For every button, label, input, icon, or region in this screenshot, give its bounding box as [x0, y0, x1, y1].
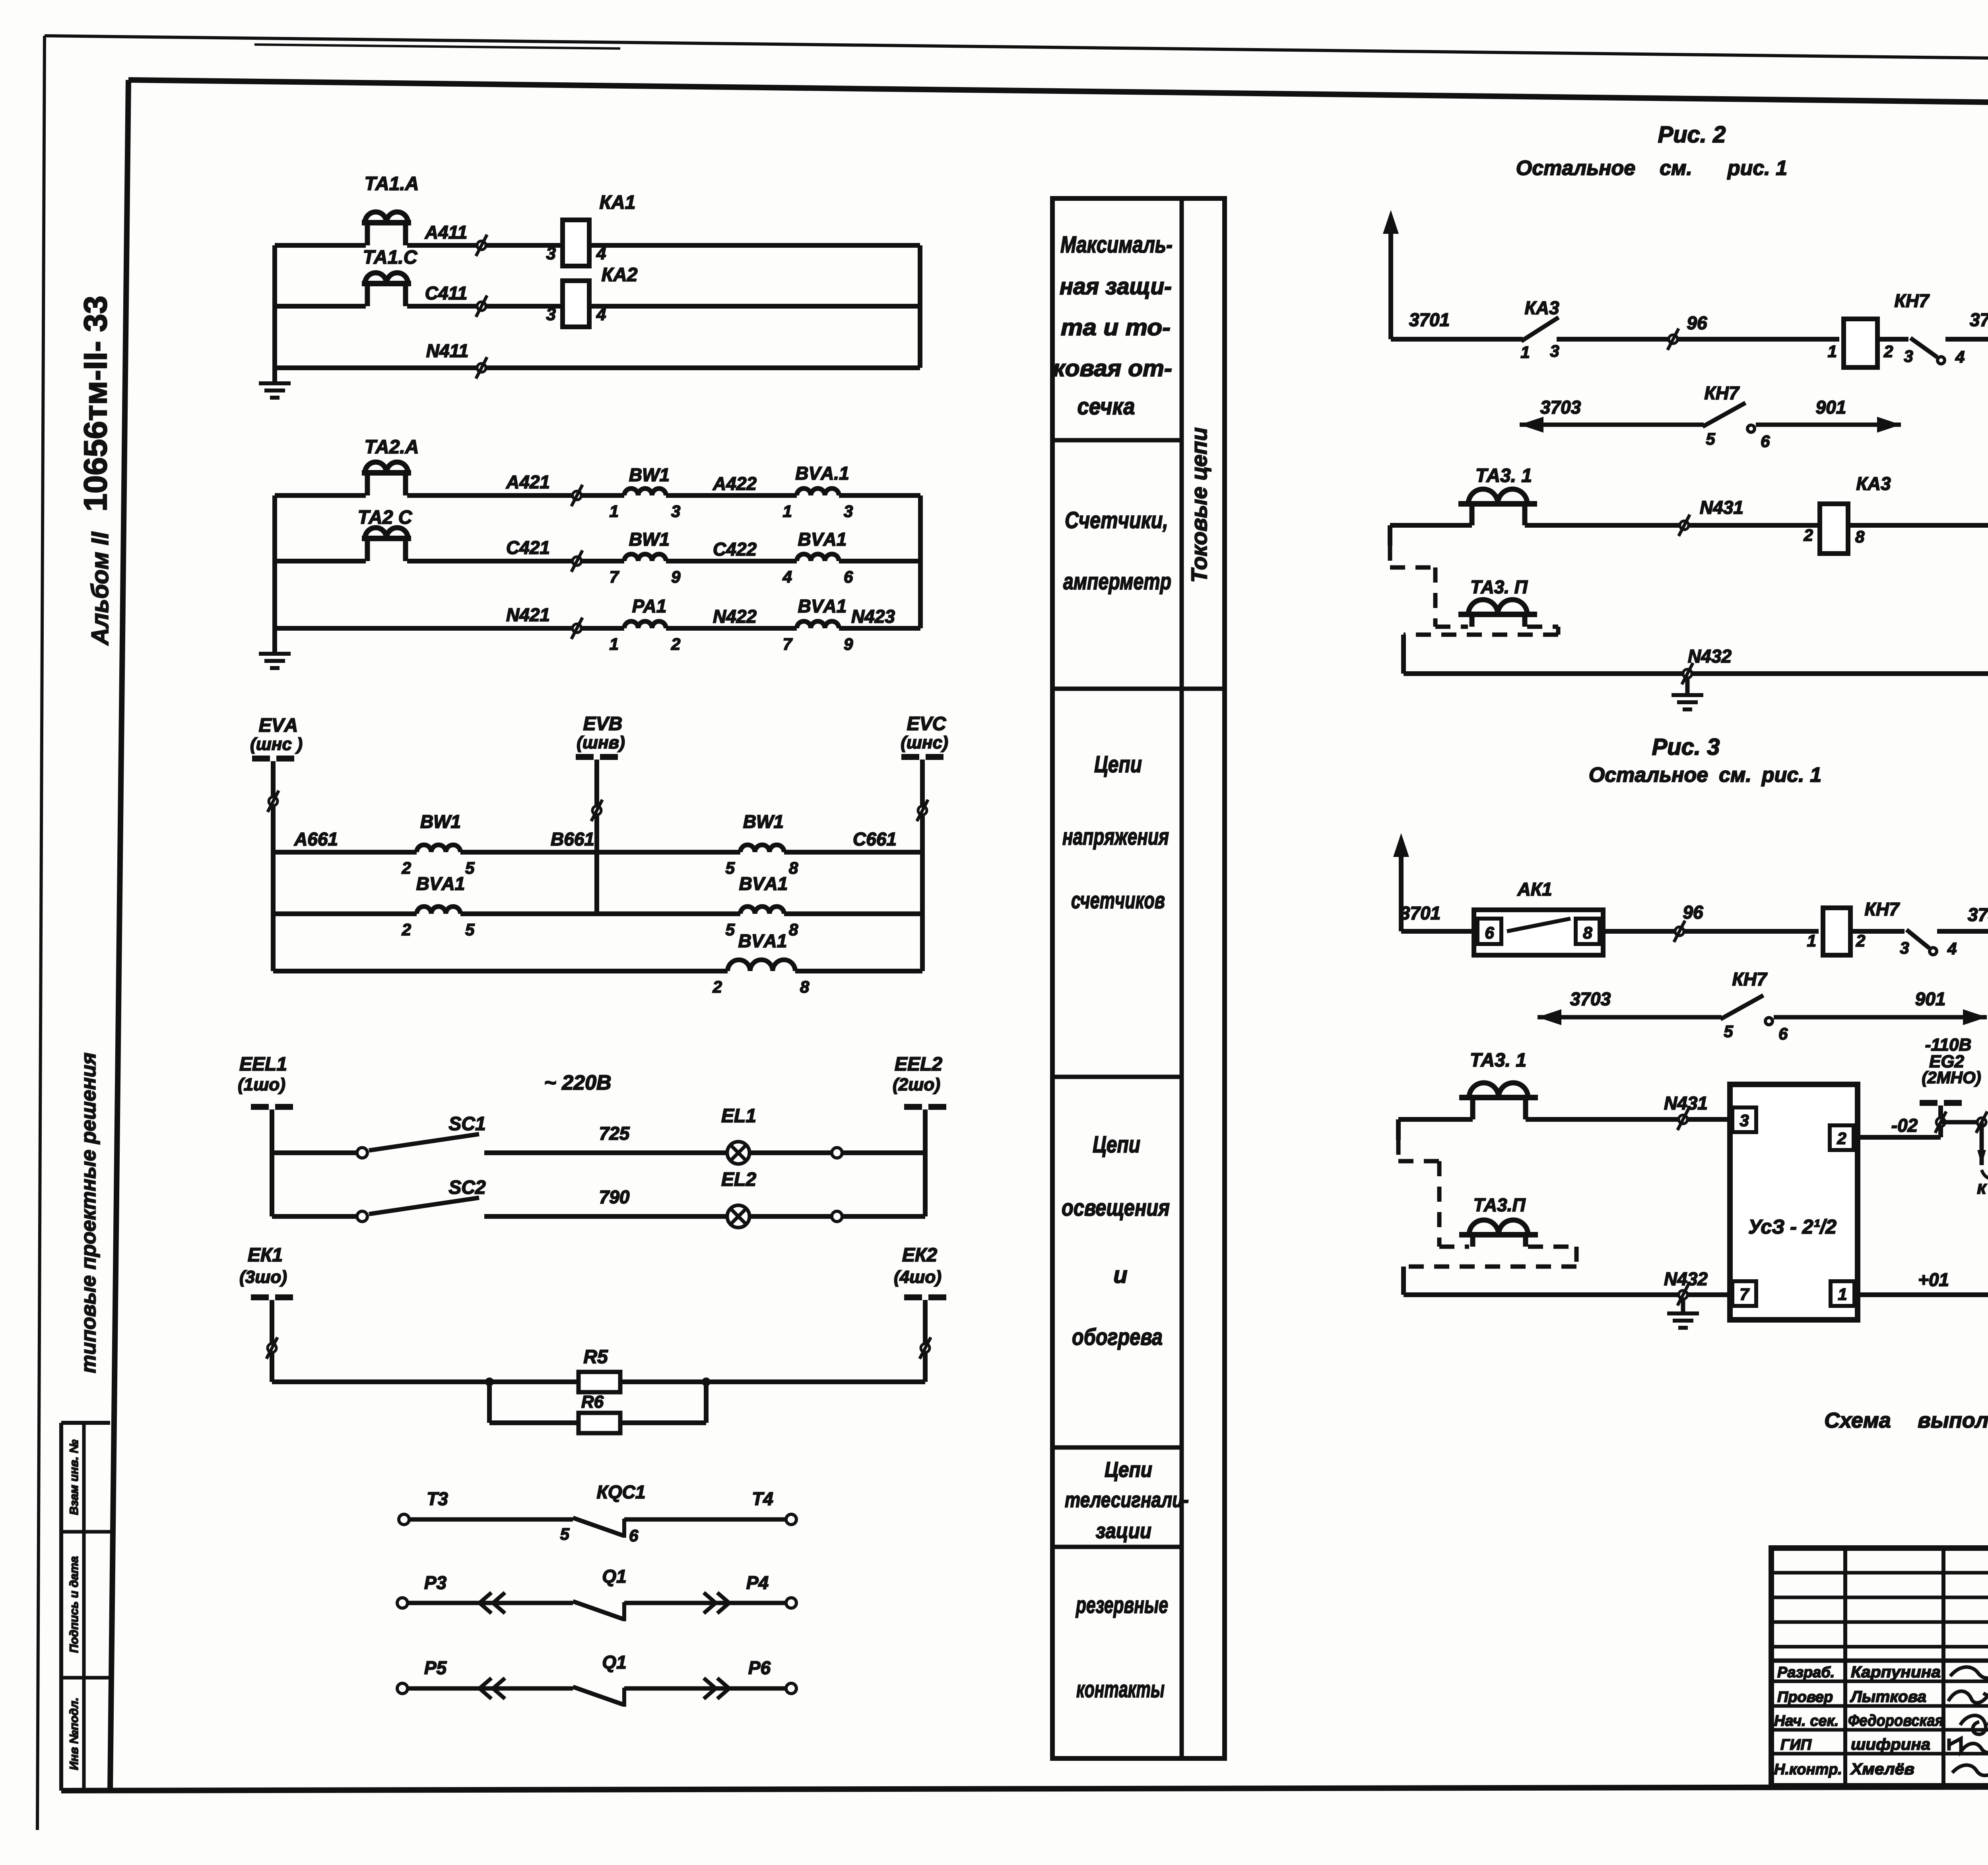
svg-text:ЕL2: ЕL2	[721, 1169, 756, 1190]
svg-text:Н.контр.: Н.контр.	[1774, 1761, 1842, 1778]
node left bus TA1	[272, 245, 277, 368]
svg-text:1: 1	[1838, 1285, 1847, 1304]
svg-text:Токовые цепи: Токовые цепи	[1186, 427, 1211, 583]
svg-text:Максималь-: Максималь-	[1060, 232, 1173, 258]
svg-text:N422: N422	[713, 606, 757, 627]
svg-text:КН7: КН7	[1894, 290, 1930, 311]
wire 3735 fig2	[1945, 337, 1988, 342]
node slash N432 fig3	[1679, 1290, 1687, 1299]
svg-text:ЕVА: ЕVА	[259, 715, 298, 736]
svg-text:5: 5	[1706, 429, 1715, 448]
sheet outer border left	[37, 36, 45, 1830]
svg-text:Подпись и дата: Подпись и дата	[68, 1556, 81, 1653]
svg-text:2: 2	[402, 920, 411, 939]
svg-text:ЕК1: ЕК1	[248, 1245, 283, 1266]
svg-text:Альбом II: Альбом II	[87, 531, 113, 646]
svg-text:3703: 3703	[1540, 397, 1581, 418]
svg-text:N421: N421	[506, 604, 550, 625]
svg-text:6: 6	[1485, 923, 1494, 942]
svg-text:5: 5	[560, 1525, 570, 1543]
node slash EK2	[921, 1344, 930, 1352]
node 96 fig2	[1669, 335, 1677, 344]
svg-text:Федоровская: Федоровская	[1848, 1712, 1943, 1729]
svg-text:1: 1	[1807, 931, 1816, 950]
svg-text:ТА2.А: ТА2.А	[365, 437, 419, 458]
node slash A421	[573, 491, 581, 500]
wire C411	[275, 304, 366, 309]
svg-text:SС2: SС2	[448, 1177, 486, 1198]
svg-text:5: 5	[726, 859, 735, 877]
svg-text:2: 2	[712, 977, 722, 996]
svg-text:3: 3	[546, 244, 556, 263]
wire right bus TA2	[918, 495, 923, 628]
svg-text:SС1: SС1	[448, 1113, 485, 1135]
svg-text:3: 3	[1904, 347, 1913, 365]
svg-text:7: 7	[610, 567, 619, 586]
title block signature rows	[1771, 1680, 1988, 1683]
node slash EG2	[1936, 1118, 1945, 1127]
svg-text:телесигнали-: телесигнали-	[1065, 1488, 1189, 1512]
wire heater row	[272, 1379, 579, 1384]
svg-text:1: 1	[610, 635, 619, 653]
svg-text:контакты: контакты	[1076, 1677, 1165, 1702]
svg-text:ВW1: ВW1	[629, 529, 670, 550]
wire A421	[275, 493, 366, 498]
svg-text:N432: N432	[1688, 646, 1732, 666]
svg-text:5: 5	[726, 920, 735, 939]
svg-text:901: 901	[1915, 989, 1946, 1009]
svg-text:Р4: Р4	[746, 1572, 769, 1593]
node 96 fig3	[1675, 927, 1684, 936]
contact circle T4	[786, 1514, 796, 1525]
wire EVC vertical	[920, 760, 925, 971]
svg-text:резервные: резервные	[1076, 1592, 1168, 1618]
svg-text:А422: А422	[712, 473, 757, 494]
svg-text:(шнв): (шнв)	[577, 733, 625, 752]
contact circle SC2 left	[357, 1211, 367, 1222]
svg-text:3735: 3735	[1968, 904, 1988, 925]
svg-text:R5: R5	[583, 1346, 608, 1368]
node slash C421	[573, 557, 581, 565]
wire EEL2 vertical	[923, 1109, 928, 1216]
svg-text:КА3: КА3	[1856, 473, 1891, 494]
wire fig2 left riser with arrow	[1388, 222, 1393, 339]
svg-text:8: 8	[789, 859, 798, 877]
wire +01	[1854, 1292, 1988, 1297]
wire stub -2	[1941, 1120, 1982, 1125]
svg-text:9: 9	[844, 635, 853, 653]
wire BVA1 voltage row	[273, 911, 417, 916]
svg-text:КН7: КН7	[1704, 383, 1739, 403]
svg-text:освещения: освещения	[1062, 1195, 1170, 1221]
svg-text:+01: +01	[1918, 1269, 1949, 1290]
svg-text:КН7: КН7	[1732, 969, 1767, 989]
svg-text:2: 2	[402, 859, 411, 877]
wire EVA vertical	[271, 761, 276, 971]
wire left bus lower fig3	[1401, 1267, 1406, 1295]
drawing frame top	[128, 80, 1988, 109]
node slash N421	[573, 624, 581, 633]
wire N421	[275, 626, 624, 631]
wire 3701 fig3	[1401, 929, 1474, 934]
svg-text:В661: В661	[551, 829, 594, 849]
svg-text:ЕVС: ЕVС	[907, 713, 947, 734]
svg-text:5: 5	[465, 859, 475, 877]
wire 3703 arrow row fig2	[1520, 417, 1543, 433]
svg-text:КQС1: КQС1	[597, 1482, 646, 1502]
svg-text:ЕL1: ЕL1	[721, 1105, 756, 1127]
svg-text:сечка: сечка	[1077, 394, 1135, 420]
svg-text:(шнс): (шнс)	[901, 733, 948, 752]
svg-text:3701: 3701	[1409, 309, 1450, 330]
svg-text:-02: -02	[1891, 1115, 1918, 1136]
dashed link TA3.P fig2	[1388, 546, 1392, 567]
svg-text:КА2: КА2	[602, 264, 638, 286]
svg-text:Т3: Т3	[427, 1488, 448, 1509]
svg-text:Нач. сек.: Нач. сек.	[1774, 1713, 1839, 1729]
svg-text:РА1: РА1	[632, 596, 667, 616]
wire C421	[275, 559, 366, 563]
svg-text:~ 220В: ~ 220В	[544, 1071, 611, 1094]
wire T3	[410, 1517, 573, 1522]
svg-text:N431: N431	[1664, 1093, 1708, 1113]
contact circle T3	[399, 1514, 409, 1525]
svg-text:8: 8	[1855, 527, 1865, 546]
plug chevrons right Q1 row2	[704, 1678, 716, 1699]
margin stamp table	[59, 1423, 63, 1791]
svg-text:ВVА1: ВVА1	[739, 873, 788, 894]
svg-text:3: 3	[1739, 1111, 1749, 1130]
svg-text:8: 8	[789, 920, 798, 939]
svg-text:(шнс ): (шнс )	[250, 734, 303, 754]
svg-text:ЕVВ: ЕVВ	[583, 713, 623, 734]
svg-text:А421: А421	[506, 472, 550, 492]
svg-text:725: 725	[599, 1123, 630, 1144]
svg-text:ТА1.С: ТА1.С	[363, 247, 418, 268]
svg-text:4: 4	[782, 567, 792, 586]
svg-text:КА3: КА3	[1524, 297, 1559, 318]
node slash EVC	[918, 806, 927, 815]
plug chevrons left Q1 row2	[493, 1678, 505, 1699]
wire 901 arrow row fig3	[1774, 1015, 1987, 1020]
wire 901 arrow row fig2	[1756, 423, 1901, 427]
wire N432 fig3	[1404, 1292, 1732, 1297]
wire left bus upper fig3	[1396, 1119, 1401, 1140]
svg-text:1: 1	[1828, 342, 1837, 361]
svg-text:Цепи: Цепи	[1093, 1132, 1140, 1158]
svg-text:(2шо): (2шо)	[893, 1075, 940, 1094]
svg-text:8: 8	[800, 977, 810, 996]
svg-text:С411: С411	[425, 283, 468, 303]
svg-text:Цепи: Цепи	[1094, 752, 1142, 777]
svg-text:УсЗ - 2¹/2: УсЗ - 2¹/2	[1748, 1216, 1837, 1238]
svg-text:ЕЕL2: ЕЕL2	[895, 1054, 942, 1075]
sheet outer border top	[45, 36, 1988, 65]
wire right bus TA1	[918, 245, 922, 368]
svg-text:3701: 3701	[1400, 903, 1441, 923]
svg-text:(4шо): (4шо)	[894, 1267, 942, 1287]
wire N431 fig2	[1390, 523, 1472, 528]
svg-text:Карпунина: Карпунина	[1851, 1663, 1941, 1681]
svg-text:КН7: КН7	[1864, 899, 1900, 919]
wire left bus upper fig2	[1388, 525, 1392, 546]
svg-text:4: 4	[1955, 348, 1965, 366]
svg-text:790: 790	[599, 1187, 630, 1207]
svg-text:ВVА1: ВVА1	[416, 873, 465, 894]
svg-text:4: 4	[1947, 939, 1957, 958]
protection unit AK1 USZ-2/2	[1730, 1084, 1858, 1320]
svg-text:Рис. 3: Рис. 3	[1652, 734, 1720, 760]
svg-text:3: 3	[1550, 342, 1559, 360]
wire lighting row 1	[272, 1150, 357, 1155]
contact 3-4 KH7 fig2	[1877, 337, 1908, 342]
svg-text:1: 1	[610, 502, 619, 521]
drawing frame bottom	[61, 1786, 1988, 1791]
ground TA2 bus	[272, 630, 277, 653]
svg-text:ТА3. П: ТА3. П	[1470, 577, 1528, 597]
wire left bus lower fig2	[1401, 635, 1406, 674]
svg-text:ВVА1: ВVА1	[798, 596, 847, 616]
node slash EVA	[269, 797, 278, 806]
svg-text:96: 96	[1687, 313, 1707, 333]
svg-text:6: 6	[1761, 432, 1770, 451]
wire 3701 fig2	[1391, 337, 1523, 342]
dashed link TA3.P fig3	[1396, 1140, 1401, 1161]
svg-text:шифрина: шифрина	[1851, 1736, 1930, 1753]
svg-text:Р6: Р6	[748, 1657, 771, 1678]
svg-text:рис. 1: рис. 1	[1761, 763, 1821, 787]
svg-text:и: и	[1113, 1262, 1127, 1288]
svg-text:Взам инв. №: Взам инв. №	[68, 1440, 81, 1515]
svg-text:ЕК2: ЕК2	[902, 1245, 938, 1266]
svg-text:8: 8	[1583, 923, 1592, 942]
node slash N431 fig2	[1680, 521, 1689, 530]
svg-text:ТА3.П: ТА3.П	[1473, 1195, 1526, 1215]
wire P4	[624, 1601, 786, 1605]
svg-text:Лыткова: Лыткова	[1850, 1688, 1926, 1706]
svg-text:N411: N411	[426, 340, 469, 361]
wire to node 96 fig2	[1557, 337, 1839, 342]
svg-text:(2МНО): (2МНО)	[1922, 1068, 1981, 1087]
node left bus TA2	[272, 495, 277, 630]
wire EVB vertical	[594, 760, 599, 914]
junction dots R5	[485, 1377, 494, 1386]
contact circle SC1 left	[357, 1148, 367, 1158]
wire N431 fig3	[1398, 1117, 1473, 1122]
wire fig3 left riser with arrow	[1399, 845, 1404, 931]
svg-text:С421: С421	[506, 537, 550, 558]
svg-text:АК1: АК1	[1517, 879, 1552, 899]
svg-text:Q1: Q1	[602, 1566, 626, 1587]
svg-text:рис. 1: рис. 1	[1727, 157, 1787, 180]
svg-text:напряжения: напряжения	[1062, 824, 1169, 850]
svg-text:6: 6	[1778, 1024, 1788, 1043]
contact circle P3	[397, 1598, 408, 1608]
svg-text:Цепи: Цепи	[1105, 1458, 1152, 1482]
ground N432 fig2	[1685, 678, 1690, 694]
svg-text:см.: см.	[1719, 763, 1751, 787]
wire 3703 arrow row fig3	[1538, 1009, 1561, 1025]
wire T4	[624, 1517, 786, 1522]
svg-text:А411: А411	[425, 222, 468, 243]
svg-text:Остальное: Остальное	[1516, 157, 1635, 180]
svg-text:2: 2	[1856, 931, 1865, 950]
svg-text:1: 1	[1520, 343, 1530, 361]
wire N411	[275, 365, 920, 370]
svg-text:(1шо): (1шо)	[238, 1075, 285, 1094]
svg-text:2: 2	[1804, 526, 1813, 544]
svg-text:4: 4	[596, 244, 606, 263]
svg-text:ковая от-: ковая от-	[1053, 356, 1172, 381]
svg-text:Р5: Р5	[424, 1657, 447, 1678]
middle table frame	[1052, 198, 1225, 1758]
svg-text:Схема: Схема	[1824, 1408, 1891, 1432]
svg-text:96: 96	[1683, 902, 1703, 923]
wire EG2 vertical	[1938, 1105, 1943, 1137]
svg-text:ВVА1: ВVА1	[798, 529, 847, 550]
svg-text:типовые проектные решения: типовые проектные решения	[77, 1053, 100, 1373]
svg-text:С422: С422	[713, 539, 757, 559]
node slash N411	[477, 363, 486, 372]
wire BVA1 lower row	[273, 969, 728, 973]
svg-text:ТА1.А: ТА1.А	[365, 173, 419, 194]
svg-text:901: 901	[1816, 397, 1846, 418]
svg-text:ГИП: ГИП	[1780, 1737, 1812, 1753]
svg-text:Q1: Q1	[602, 1652, 626, 1673]
svg-text:ВVА1: ВVА1	[738, 931, 787, 951]
svg-text:обогрева: обогрева	[1072, 1324, 1163, 1350]
svg-text:N431: N431	[1700, 497, 1743, 518]
svg-text:Р3: Р3	[424, 1572, 447, 1593]
node slash EK1	[268, 1344, 276, 1352]
contact circle P4	[786, 1598, 796, 1608]
svg-text:2: 2	[1883, 342, 1893, 361]
svg-text:ТА2 С: ТА2 С	[358, 507, 413, 528]
title block signatures	[1950, 1667, 1988, 1678]
svg-text:Счетчики,: Счетчики,	[1065, 507, 1168, 533]
svg-text:2: 2	[671, 635, 680, 653]
contact 3-4 KH7 fig3	[1850, 929, 1905, 934]
svg-text:3: 3	[1900, 938, 1909, 957]
svg-text:ВW1: ВW1	[629, 464, 670, 485]
svg-text:9: 9	[671, 567, 681, 586]
ground TA1 bus	[272, 368, 277, 383]
svg-text:Хмелёв: Хмелёв	[1850, 1760, 1914, 1778]
sheet outer border top doubled segment	[254, 45, 620, 49]
svg-text:7: 7	[1739, 1285, 1749, 1304]
svg-text:5: 5	[1724, 1022, 1733, 1041]
svg-text:ВW1: ВW1	[420, 811, 461, 832]
svg-text:ная защи-: ная защи-	[1060, 274, 1172, 299]
plug chevrons right Q1 row1	[704, 1593, 716, 1613]
contact circle EL2 right	[832, 1211, 842, 1222]
contact circle P6	[786, 1683, 796, 1694]
wire A411	[275, 243, 366, 248]
svg-text:та и то-: та и то-	[1061, 315, 1171, 340]
svg-text:6: 6	[629, 1526, 639, 1545]
wire A661 row	[273, 850, 417, 855]
node slash C411	[477, 302, 486, 311]
wire P5	[408, 1686, 573, 1691]
wire lighting row 2	[272, 1214, 357, 1219]
wire P3	[408, 1601, 573, 1605]
svg-text:(3шо): (3шо)	[239, 1267, 287, 1287]
wire 3735 fig3	[1937, 929, 1988, 934]
svg-text:КА1: КА1	[600, 192, 636, 213]
svg-text:см.: см.	[1660, 157, 1692, 180]
svg-text:N423: N423	[851, 606, 895, 627]
svg-text:3: 3	[546, 305, 556, 324]
svg-text:3: 3	[671, 502, 680, 521]
wire N432 fig2	[1404, 671, 1988, 676]
svg-text:6: 6	[844, 567, 853, 586]
wire to node 96 fig3	[1603, 929, 1819, 934]
svg-text:А661: А661	[294, 829, 338, 849]
svg-text:Остальное: Остальное	[1589, 763, 1708, 787]
svg-text:3703: 3703	[1570, 989, 1611, 1009]
svg-text:Рис. 2: Рис. 2	[1658, 122, 1726, 148]
node slash EVB	[592, 806, 601, 815]
svg-text:ТА3. 1: ТА3. 1	[1475, 465, 1532, 486]
svg-text:Инв №подл.: Инв №подл.	[68, 1698, 81, 1770]
svg-text:ЕЕL1: ЕЕL1	[239, 1054, 287, 1075]
wire EK1 vertical	[270, 1300, 274, 1382]
wire R6 branch	[487, 1382, 492, 1423]
wire -02	[1854, 1135, 1941, 1140]
node slash N431 fig3	[1679, 1115, 1687, 1124]
svg-text:Т4: Т4	[752, 1488, 773, 1509]
svg-text:5: 5	[465, 920, 475, 939]
svg-text:ВVА.1: ВVА.1	[795, 463, 849, 484]
svg-text:3: 3	[844, 502, 853, 521]
svg-text:счетчиков: счетчиков	[1071, 888, 1165, 913]
svg-text:выполнена: выполнена	[1918, 1408, 1988, 1432]
svg-text:7: 7	[783, 635, 793, 653]
svg-text:1: 1	[783, 502, 792, 521]
plug chevrons left Q1 row1	[493, 1593, 505, 1613]
svg-text:ВW1: ВW1	[743, 811, 784, 832]
node slash N432 fig2	[1683, 669, 1692, 678]
contact circle EL1 right	[832, 1148, 842, 1158]
node slash A411	[477, 241, 486, 250]
svg-text:4: 4	[596, 305, 606, 324]
svg-text:Провер: Провер	[1777, 1689, 1833, 1706]
svg-text:R6: R6	[581, 1392, 604, 1412]
title block upper-left thin rows	[1771, 1571, 1988, 1575]
wire P6	[624, 1686, 786, 1691]
svg-text:к авт: к авт	[1977, 1177, 1988, 1198]
ground N432 fig3	[1681, 1299, 1685, 1312]
svg-text:2: 2	[1837, 1129, 1846, 1148]
svg-text:С661: С661	[853, 829, 897, 849]
wire EEL1 vertical	[270, 1109, 274, 1216]
svg-text:ТА3. 1: ТА3. 1	[1470, 1050, 1526, 1071]
title block frame	[1771, 1548, 1988, 1786]
brace to line automaton	[1982, 1170, 1988, 1187]
svg-text:амперметр: амперметр	[1063, 569, 1171, 594]
svg-text:3735: 3735	[1970, 309, 1988, 330]
svg-text:зации: зации	[1096, 1519, 1151, 1543]
wire EK2 vertical	[923, 1300, 928, 1382]
drawing frame left	[110, 80, 128, 1790]
contact circle P5	[397, 1683, 408, 1694]
svg-text:10656тм-II- 33: 10656тм-II- 33	[78, 295, 114, 511]
svg-text:Разраб.: Разраб.	[1777, 1664, 1835, 1681]
title block vertical lines	[1843, 1548, 1847, 1786]
